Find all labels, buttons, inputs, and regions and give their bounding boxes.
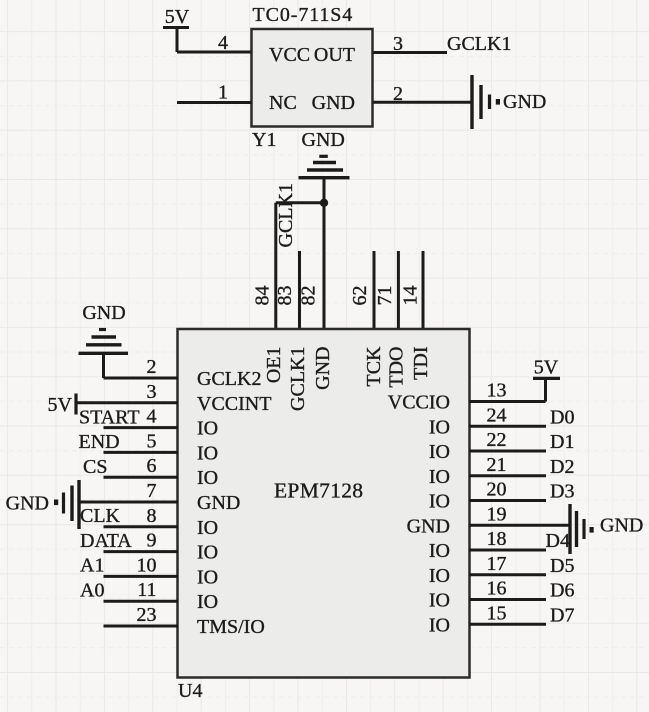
- svg-text:IO: IO: [429, 614, 450, 636]
- svg-text:4: 4: [218, 32, 228, 54]
- svg-text:14: 14: [400, 286, 422, 306]
- svg-text:20: 20: [487, 479, 507, 501]
- svg-text:18: 18: [487, 528, 507, 550]
- svg-text:5V: 5V: [48, 394, 73, 416]
- svg-text:82: 82: [298, 286, 320, 306]
- svg-text:VCCINT: VCCINT: [197, 393, 271, 415]
- svg-text:GND: GND: [600, 515, 643, 537]
- svg-text:IO: IO: [197, 418, 218, 440]
- svg-text:IO: IO: [197, 566, 218, 588]
- svg-text:IO: IO: [429, 540, 450, 562]
- svg-text:3: 3: [147, 381, 157, 403]
- svg-text:5: 5: [147, 430, 157, 452]
- svg-text:CLK: CLK: [80, 505, 121, 527]
- svg-text:EPM7128: EPM7128: [274, 479, 363, 503]
- svg-text:DATA: DATA: [80, 530, 132, 552]
- svg-text:10: 10: [137, 554, 157, 576]
- svg-text:TCK: TCK: [363, 346, 385, 387]
- svg-text:22: 22: [487, 429, 507, 451]
- svg-text:TDO: TDO: [386, 347, 408, 388]
- svg-text:2: 2: [147, 356, 157, 378]
- svg-text:IO: IO: [429, 491, 450, 513]
- svg-text:71: 71: [374, 286, 396, 306]
- svg-text:OUT: OUT: [314, 44, 355, 66]
- svg-text:IO: IO: [197, 542, 218, 564]
- svg-text:VCC: VCC: [269, 44, 310, 66]
- svg-text:83: 83: [274, 286, 296, 306]
- svg-text:OE1: OE1: [263, 347, 285, 384]
- svg-text:GCLK1: GCLK1: [287, 347, 309, 411]
- svg-text:IO: IO: [197, 517, 218, 539]
- svg-text:7: 7: [147, 480, 157, 502]
- svg-text:D7: D7: [550, 604, 574, 626]
- svg-text:GCLK1: GCLK1: [275, 183, 297, 247]
- svg-text:TDI: TDI: [410, 347, 432, 380]
- svg-text:17: 17: [487, 553, 507, 575]
- svg-text:5V: 5V: [534, 357, 559, 379]
- svg-text:D0: D0: [550, 406, 574, 428]
- svg-text:2: 2: [393, 83, 403, 105]
- svg-text:GND: GND: [312, 92, 355, 114]
- svg-text:D2: D2: [550, 456, 574, 478]
- svg-text:19: 19: [487, 503, 507, 525]
- svg-text:6: 6: [147, 455, 157, 477]
- svg-text:IO: IO: [429, 466, 450, 488]
- svg-text:21: 21: [487, 454, 507, 476]
- svg-text:IO: IO: [197, 467, 218, 489]
- svg-text:NC: NC: [269, 92, 297, 114]
- svg-text:CS: CS: [83, 456, 107, 478]
- svg-text:IO: IO: [429, 565, 450, 587]
- svg-text:1: 1: [218, 82, 228, 104]
- svg-text:VCCIO: VCCIO: [388, 392, 450, 414]
- svg-text:GND: GND: [503, 91, 546, 113]
- svg-text:D1: D1: [550, 431, 574, 453]
- svg-text:24: 24: [487, 404, 507, 426]
- svg-text:GND: GND: [407, 515, 450, 537]
- svg-text:IO: IO: [429, 441, 450, 463]
- svg-text:13: 13: [487, 380, 507, 402]
- svg-text:TC0-711S4: TC0-711S4: [253, 4, 354, 26]
- svg-text:D4: D4: [546, 530, 570, 552]
- svg-text:D6: D6: [550, 580, 574, 602]
- svg-text:START: START: [79, 407, 140, 429]
- svg-text:23: 23: [137, 604, 157, 626]
- svg-text:Y1: Y1: [252, 129, 276, 151]
- svg-text:GCLK2: GCLK2: [197, 368, 261, 390]
- svg-text:A0: A0: [80, 580, 104, 602]
- svg-text:GCLK1: GCLK1: [447, 33, 511, 55]
- svg-text:84: 84: [252, 286, 274, 306]
- svg-text:U4: U4: [178, 680, 202, 702]
- svg-text:IO: IO: [429, 590, 450, 612]
- svg-text:9: 9: [147, 530, 157, 552]
- svg-text:GND: GND: [82, 302, 125, 324]
- svg-text:END: END: [79, 431, 120, 453]
- svg-text:GND: GND: [302, 129, 345, 151]
- svg-text:TMS/IO: TMS/IO: [197, 616, 265, 638]
- svg-text:D3: D3: [550, 481, 574, 503]
- svg-text:3: 3: [393, 33, 403, 55]
- svg-text:IO: IO: [429, 416, 450, 438]
- svg-text:15: 15: [487, 602, 507, 624]
- svg-text:IO: IO: [197, 442, 218, 464]
- svg-text:GND: GND: [6, 493, 49, 515]
- svg-text:16: 16: [487, 578, 507, 600]
- svg-text:IO: IO: [197, 591, 218, 613]
- svg-text:A1: A1: [80, 555, 104, 577]
- svg-text:62: 62: [349, 286, 371, 306]
- svg-text:4: 4: [147, 406, 157, 428]
- svg-text:8: 8: [147, 505, 157, 527]
- svg-text:GND: GND: [197, 492, 240, 514]
- svg-text:GND: GND: [312, 347, 334, 390]
- svg-text:5V: 5V: [165, 6, 190, 28]
- svg-text:11: 11: [137, 579, 156, 601]
- svg-text:D5: D5: [550, 555, 574, 577]
